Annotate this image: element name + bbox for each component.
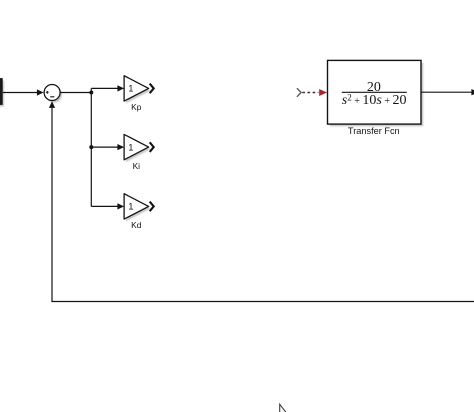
junction dot (sum output branch) [89,91,93,95]
wire: step to sum [3,89,44,95]
wire: TF output to right edge [421,89,474,95]
gain Kd [124,194,150,222]
svg-text:Kp: Kp [131,102,142,112]
feedback wire [52,107,474,302]
wire to Kp [91,85,124,91]
wire to Ki [91,144,124,150]
step block (clipped at left edge) [0,79,4,107]
gain Kp [124,76,150,104]
svg-text:Transfer Fcn: Transfer Fcn [348,126,400,136]
sum junction [44,85,62,103]
svg-text:1: 1 [128,83,133,94]
red arrowhead into Transfer Fcn [319,89,327,96]
svg-text:s2 + 10s + 20: s2 + 10s + 20 [342,92,407,108]
wire: sum output to branch [60,92,91,94]
gain Ki [124,134,150,162]
output port Kp [150,84,154,94]
branch vertical wire [90,88,92,206]
junction dot (Ki branch) [89,145,93,149]
red dashed wire [302,92,318,94]
svg-text:1: 1 [128,141,133,152]
svg-text:1: 1 [128,201,133,212]
svg-text:Kd: Kd [131,220,142,230]
wire to Kd [91,203,124,209]
unconnected input port chevron [297,88,301,97]
svg-text:Ki: Ki [133,161,141,171]
output port Kd [150,202,154,212]
output port Ki [150,142,154,152]
mouse cursor [280,404,288,412]
feedback arrowhead into sum [49,101,55,108]
transfer fcn block [328,60,424,126]
